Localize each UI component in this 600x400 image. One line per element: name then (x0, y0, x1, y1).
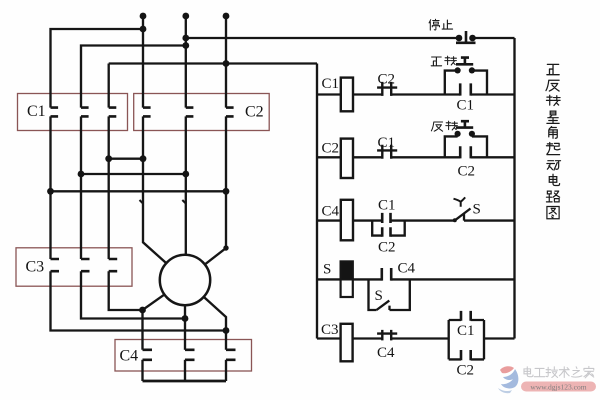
svg-text:C1: C1 (457, 323, 475, 339)
wire row1 coil to C2 contact (353, 93, 382, 95)
svg-text:S: S (473, 202, 481, 218)
coil C2 (341, 139, 353, 178)
contact C2 NO parallel bracket row3 (372, 221, 405, 236)
terminal nub motor lead B (182, 200, 186, 204)
svg-text:C2: C2 (458, 164, 476, 180)
wire phase-C vertical to junction J3 (225, 116, 227, 191)
wire junction row J1 (109, 158, 143, 160)
svg-text:C2: C2 (378, 240, 396, 256)
junction W2/phase-B (182, 42, 189, 49)
wire row2 coil to C1 contact (353, 156, 382, 158)
contactor C4 main-contact box (115, 340, 252, 372)
wire column3 down to C3 (108, 159, 110, 259)
svg-text:C3: C3 (26, 259, 45, 276)
wire column2 to junction J2 (80, 116, 82, 174)
node stop button right (469, 35, 476, 42)
svg-text:C1: C1 (322, 76, 340, 92)
svg-text:C1: C1 (378, 198, 396, 214)
wire C4-3 to star bus (225, 360, 227, 381)
node W motor bottom-right (223, 327, 230, 334)
wire C4-2 to star bus (184, 360, 186, 381)
wire motor lead W bottom-right (204, 297, 226, 350)
node phase-C supply terminal (223, 13, 230, 20)
coil C3 (341, 324, 353, 362)
contactor C1 main-contact box (18, 94, 128, 131)
pushbutton SB3 reverse branch frame (445, 136, 487, 157)
contact C2-2 (186, 108, 194, 117)
wire phase-A vertical to junction J1 (142, 116, 144, 158)
wire row5 coil to C4 contact (353, 337, 383, 339)
svg-text:S: S (375, 288, 383, 304)
svg-text:C2: C2 (245, 104, 264, 121)
contact C2 NC row1 (377, 82, 397, 96)
contact C1/C2 parallel bracket row5 (449, 320, 484, 359)
coil C4 (341, 200, 353, 241)
wire phase-C down to motor lead (205, 191, 226, 264)
wire motor lead V bottom-center (184, 305, 186, 350)
wire phase-A down to motor lead (143, 159, 166, 264)
wire row5 left (317, 337, 341, 339)
wire phase-B vertical to junction J2 (185, 116, 187, 174)
time relay S contact (delayed NC) row3 (455, 209, 471, 221)
node reverse button left (455, 131, 461, 137)
contactor C3 main-contact box (16, 248, 132, 286)
junction J1 left (105, 155, 112, 162)
wire motor lead U bottom-left (143, 294, 165, 350)
wire row5 to right rail (484, 337, 515, 339)
contact C2 holding NO row2 (460, 146, 471, 158)
node S contact hinge (453, 218, 457, 222)
wire row4 coil to C4 contact (353, 278, 382, 280)
node V motor bottom-center (182, 315, 189, 322)
contact C2-1 (143, 108, 151, 117)
wire column1 to junction J3 (49, 116, 51, 191)
svg-text:C3: C3 (321, 322, 339, 338)
node forward button left (455, 67, 461, 73)
pushbutton SB2 forward bridge and stem (456, 58, 473, 65)
wire row3 contact to S contact (391, 219, 455, 221)
wire column3 down from W3 (108, 64, 110, 108)
wire C3-3 output to node U (109, 271, 143, 310)
wire phase-B down to motor top (185, 174, 187, 255)
wire row2 left (317, 156, 341, 158)
wire phase-A vertical upper (142, 16, 144, 108)
contact C2 NO bars row3 (382, 227, 390, 236)
node phase-B supply terminal (182, 13, 189, 20)
wire phase-C vertical upper (225, 16, 227, 108)
contact C3-2 (81, 259, 90, 271)
svg-text:www.dgjs123.com: www.dgjs123.com (530, 382, 586, 391)
wire row1 contact to branch (391, 93, 460, 95)
node forward button right (469, 67, 475, 73)
contact C1 NO row3 (382, 213, 390, 223)
wire column3 to junction J1 (108, 116, 110, 158)
wire row3 to right rail (464, 219, 515, 221)
wire control left rail (316, 64, 318, 339)
wire stop-line from phase-B (186, 37, 459, 39)
contact C4 NO row4 (382, 268, 391, 281)
contact C3-1 (51, 259, 60, 271)
node U motor bottom-left (139, 307, 146, 314)
junction J2 right (182, 171, 189, 178)
contact C1-3 (109, 108, 117, 117)
wire row5 contact to bracket (391, 337, 449, 339)
wire row4 left (317, 278, 341, 280)
svg-text:C2: C2 (457, 363, 475, 379)
svg-text:C4: C4 (377, 345, 395, 361)
svg-text:C4: C4 (322, 204, 340, 220)
junction J1 right (140, 155, 147, 162)
wire row3 coil to C1 contact (353, 219, 382, 221)
contact C4-2 (185, 350, 195, 360)
contact S NO parallel bracket row4 (369, 279, 410, 310)
contact C4-3 (226, 350, 236, 360)
contact C1-1 (51, 108, 59, 117)
wire row2 contact to branch (391, 156, 460, 158)
svg-text:C1: C1 (457, 98, 475, 114)
svg-text:C2: C2 (378, 72, 396, 88)
contact C1-2 (81, 108, 89, 117)
junction W1/phase-A (140, 26, 147, 33)
svg-text:C1: C1 (378, 135, 396, 151)
junction W3/phase-C (223, 60, 230, 67)
terminal nub motor lead A (140, 200, 144, 204)
junction J2 left (78, 171, 85, 178)
watermark logo and site name (498, 366, 596, 393)
svg-text:C4: C4 (398, 261, 416, 277)
node reverse button right (469, 131, 475, 137)
wire phase-B vertical upper (185, 16, 187, 108)
wire crossover W1 to C1 column1 (51, 29, 144, 108)
contact C1 NC row2 (377, 145, 397, 159)
wire row3 left (317, 219, 341, 221)
label 正转 forward button (431, 57, 441, 66)
wire crossover W2 to C1 column2 (81, 46, 186, 108)
pushbutton SB3 reverse bridge and stem (456, 121, 473, 127)
wire row1 to right rail (471, 93, 515, 95)
time relay S delay fork (454, 197, 466, 206)
wire C4-1 to star bus (141, 360, 143, 381)
coil C1 (341, 78, 353, 112)
contact C4 NC row5 (377, 330, 397, 341)
svg-text:C4: C4 (120, 348, 139, 365)
junction motor top-right corner (223, 245, 228, 250)
wire junction row J3 (51, 190, 227, 192)
wire crossover W3 feeding control rail (109, 62, 317, 64)
junction stop-line/phase-B (182, 35, 189, 42)
contact C3-3 (109, 259, 118, 271)
junction J3 left (47, 188, 54, 195)
title 正反转星角起动电路图 vertical (547, 64, 559, 74)
contact C1 holding NO row1 (460, 83, 471, 95)
wire control right rail (513, 38, 515, 339)
time relay S coil (filled + hollow) (341, 261, 353, 279)
svg-text:C2: C2 (322, 141, 340, 157)
junction J3 right (223, 188, 230, 195)
motor M stator circle (160, 255, 210, 305)
pushbutton SB2 forward branch frame (445, 71, 487, 95)
node stop button left (456, 35, 463, 42)
contactor C2 main-contact box (134, 94, 270, 131)
label 反转 reverse button (431, 122, 442, 131)
contact S NO blade row4 (377, 301, 390, 310)
contact C1 NO bars row5 (461, 311, 471, 321)
label 停止 stop button (429, 19, 439, 30)
svg-text:C1: C1 (27, 103, 46, 120)
wire stop-line right segment (473, 37, 515, 39)
wire star-point bus (143, 380, 227, 383)
contact C2 NO bars row5 (461, 350, 471, 360)
wire junction row J2 (81, 173, 186, 175)
wire row2 to right rail (471, 156, 515, 158)
wire C3-1 output to node W (51, 271, 227, 330)
wire column1 down to C3 (49, 191, 51, 259)
wire row1 left (317, 93, 341, 95)
svg-text:S: S (323, 262, 331, 278)
wire row4 to right rail (391, 278, 514, 280)
node phase-A supply terminal (140, 13, 147, 20)
wire C3-2 output to node V (81, 271, 185, 318)
contact C2-3 (226, 108, 234, 117)
contact C4-1 (143, 350, 153, 360)
wire column2 down to C3 (80, 174, 82, 259)
pushbutton SB1 stop (NC) (456, 31, 476, 43)
